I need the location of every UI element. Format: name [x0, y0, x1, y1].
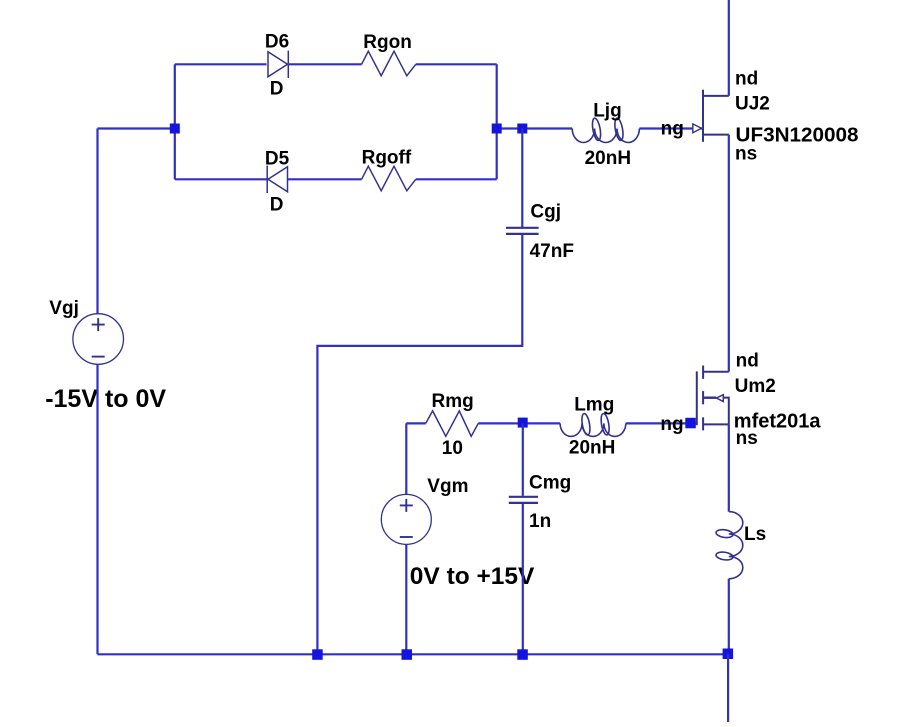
svg-text:20nH: 20nH — [569, 437, 615, 458]
junction node at loop right — [492, 124, 502, 134]
svg-text:Vgm: Vgm — [427, 476, 468, 497]
wire: D5 anode to Rgoff — [288, 178, 362, 180]
svg-text:-15V to 0V: -15V to 0V — [45, 385, 166, 413]
svg-text:47nF: 47nF — [530, 241, 574, 262]
svg-text:UJ2: UJ2 — [735, 94, 770, 115]
svg-text:Vgj: Vgj — [49, 298, 79, 319]
wire: rail stub to bottom edge — [727, 654, 729, 722]
junction node at Cmg tap — [518, 418, 528, 428]
svg-text:Rgon: Rgon — [363, 32, 412, 53]
wire: Vgj bottom lead to ground rail — [96, 364, 98, 654]
svg-text:Cmg: Cmg — [529, 472, 571, 493]
svg-text:1n: 1n — [529, 511, 551, 532]
svg-text:Cgj: Cgj — [530, 202, 561, 223]
wire: Vgj top lead — [96, 129, 98, 314]
svg-text:ng: ng — [660, 414, 683, 435]
diode D6 — [268, 51, 288, 78]
svg-text:Rgoff: Rgoff — [362, 148, 412, 169]
wire: Lmg to Um2 gate — [626, 422, 697, 424]
capacitor Cgj — [506, 228, 539, 234]
wire: top rail (nd) into UJ2 drain — [728, 0, 730, 96]
svg-text:ns: ns — [735, 144, 757, 165]
wire: bottom ground rail — [98, 653, 729, 655]
svg-text:D6: D6 — [265, 31, 289, 52]
svg-text:20nH: 20nH — [585, 148, 631, 169]
svg-text:Ls: Ls — [744, 524, 766, 545]
svg-text:Lmg: Lmg — [574, 395, 614, 416]
svg-text:Um2: Um2 — [735, 376, 776, 397]
svg-text:D: D — [270, 195, 284, 216]
wire: top branch left segment to D6 — [175, 63, 267, 65]
svg-text:nd: nd — [735, 68, 758, 89]
inductor Lmg — [560, 413, 626, 436]
capacitor Cmg lead from node — [522, 423, 524, 496]
wire: Ls to ground rail node — [728, 579, 730, 654]
wire: left branch vertical of diode loop — [174, 64, 176, 179]
wire: Cgj bottom lead down and left to ground rail — [317, 235, 522, 654]
voltage source Vgj — [73, 314, 124, 365]
wire: mid wire Vgm corner to Rmg — [406, 422, 426, 424]
resistor Rgoff — [362, 166, 416, 191]
svg-text:ns: ns — [736, 428, 758, 449]
svg-text:ng: ng — [661, 119, 684, 140]
bulk arrow of Um2 — [716, 395, 723, 402]
wire: Um2 source down to Ls — [728, 424, 730, 511]
junction node rail at Ls — [723, 649, 734, 660]
resistor Rmg — [426, 411, 479, 436]
inductor Ljg — [572, 118, 639, 143]
wire: Vgm top lead from mid wire — [405, 423, 407, 494]
junction node at Cgj tap — [517, 124, 527, 134]
capacitor Cmg — [509, 497, 538, 503]
svg-text:Ljg: Ljg — [593, 101, 622, 122]
wire: Rmg to Cmg node — [478, 422, 560, 424]
gate input arrow of UJ2 — [693, 124, 702, 133]
JFET UJ2 symbol — [703, 90, 729, 142]
MOSFET Um2 symbol — [697, 366, 729, 431]
svg-text:0V to +15V: 0V to +15V — [410, 563, 535, 590]
wire: Rgoff to right branch — [416, 178, 497, 180]
junction node rail at Vgm — [402, 649, 413, 660]
diode D5 — [267, 166, 287, 193]
capacitor Cgj lead from node — [521, 129, 523, 228]
wire: left rail horizontal from Vgj column to loop node — [98, 127, 175, 129]
svg-text:D: D — [270, 79, 284, 100]
svg-text:Rmg: Rmg — [432, 391, 474, 412]
wire: Ljg to UJ2 gate — [639, 127, 703, 129]
wire: Vgm bottom lead to ground rail — [405, 544, 407, 654]
wire: main gate wire from loop to Ljg — [497, 127, 573, 129]
junction node ng at Um2 gate — [685, 418, 696, 429]
junction node at loop left — [170, 124, 180, 134]
voltage source Vgm — [381, 494, 431, 544]
svg-text:10: 10 — [442, 438, 463, 459]
inductor Ls — [716, 512, 743, 579]
wire: bottom branch left segment to D5 — [175, 178, 267, 180]
svg-text:D5: D5 — [265, 148, 290, 169]
wire: Rgon to right branch corner — [416, 63, 497, 65]
resistor Rgon — [362, 51, 416, 76]
wire: Cmg bottom lead to ground rail — [522, 504, 524, 654]
svg-text:nd: nd — [736, 351, 759, 372]
junction node rail at Cmg — [517, 649, 528, 660]
wire: UJ2 source down to Um2 drain — [728, 135, 730, 372]
wire: D6 cathode to Rgon — [288, 63, 362, 65]
junction node rail at Cgj return — [312, 649, 323, 660]
wire: right branch vertical of diode loop — [496, 64, 498, 179]
